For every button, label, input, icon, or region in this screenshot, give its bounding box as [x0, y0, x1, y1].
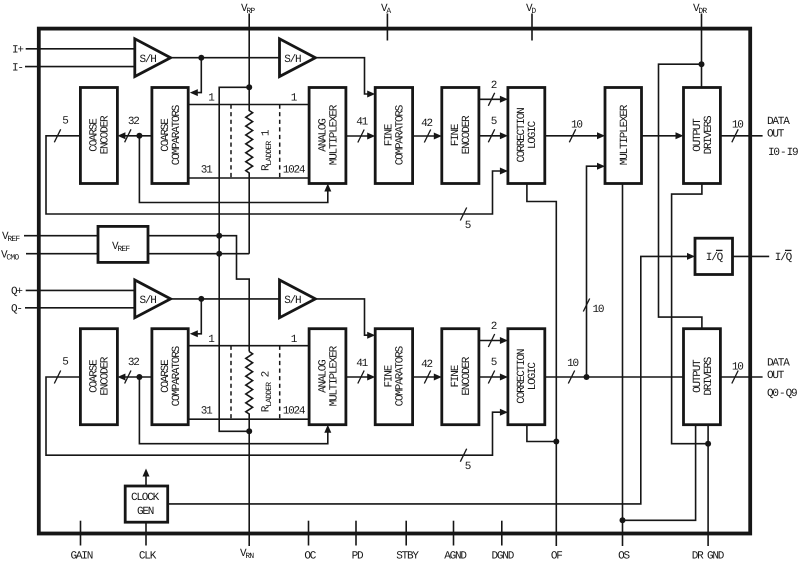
svg-text:5: 5 [62, 357, 68, 369]
svg-text:5: 5 [62, 115, 68, 127]
wire fine comparators I bus 42 to fine encoder I [413, 118, 442, 143]
svg-text:OUT: OUT [767, 129, 785, 141]
svg-text:I/Q: I/Q [706, 252, 724, 264]
output drivers I [684, 88, 721, 184]
wire clock gen distribution arrow [143, 469, 150, 487]
wire fine encoder I bus 2 to correction logic I [479, 80, 508, 106]
pin VD [526, 3, 536, 41]
svg-text:10: 10 [593, 304, 604, 316]
svg-text:1024: 1024 [283, 164, 306, 176]
svg-text:S/H: S/H [140, 54, 157, 66]
pin VRN [240, 548, 254, 561]
wire output drivers Q ground to DR GND pin [707, 425, 709, 546]
wire coarse comparators I to coarse encoder I bus 32 [117, 116, 151, 142]
svg-text:S/H: S/H [284, 295, 301, 307]
svg-text:GEN: GEN [137, 506, 154, 518]
s/h amplifier I-1 [135, 39, 171, 77]
wire s/h Q-1 branch to coarse comparators Q [190, 299, 202, 337]
resistor ladder 2 RLADDER2 [246, 352, 274, 432]
coarse encoder I [80, 88, 117, 184]
wire VRP reference rail [216, 87, 252, 434]
pin OC [304, 521, 316, 562]
wire s/h I-1 branch to coarse comparators I [190, 58, 202, 96]
label DATA OUT I0-I9 [767, 116, 798, 159]
resistor ladder 1 dashed box [231, 105, 280, 179]
wire output drivers I ground [672, 184, 712, 447]
pin VREF [2, 231, 98, 244]
svg-text:S/H: S/H [284, 54, 301, 66]
svg-text:41: 41 [356, 358, 368, 370]
svg-text:DGND: DGND [491, 551, 514, 562]
wire fine encoder Q bus 5 to correction logic Q [479, 357, 508, 383]
svg-text:I+: I+ [12, 45, 23, 57]
svg-text:ENCODER: ENCODER [100, 115, 112, 154]
wire output drivers Q data out bus 10 [720, 361, 762, 383]
correction logic I [508, 88, 545, 184]
wire s/h Q-1 output [171, 296, 280, 302]
analog multiplexer I [309, 88, 346, 184]
correction logic Q [508, 329, 545, 425]
svg-text:DRIVERS: DRIVERS [703, 115, 715, 154]
pin PD [352, 521, 364, 562]
svg-text:I-: I- [12, 62, 23, 74]
label DATA OUT Q0-Q9 [767, 358, 797, 401]
svg-text:COMPARATORS: COMPARATORS [395, 345, 407, 406]
svg-text:10: 10 [732, 361, 743, 373]
svg-text:S/H: S/H [140, 295, 157, 307]
svg-text:GND: GND [707, 551, 725, 562]
svg-text:42: 42 [421, 359, 432, 371]
multiplexer U1 [605, 88, 642, 184]
svg-text:10: 10 [732, 120, 743, 132]
svg-text:31: 31 [201, 406, 213, 418]
svg-text:5: 5 [491, 357, 497, 369]
wire iq output [733, 250, 793, 264]
pin VCMO [1, 249, 98, 262]
wire Q data bus 10 up to multiplexer [583, 163, 605, 380]
svg-text:DATA: DATA [767, 116, 790, 128]
svg-text:GAIN: GAIN [70, 551, 92, 562]
svg-text:COMPARATORS: COMPARATORS [171, 345, 183, 406]
svg-text:5: 5 [465, 220, 471, 232]
svg-text:LOGIC: LOGIC [527, 120, 539, 149]
wire coarse comparators I select to analog multiplexer I [139, 136, 331, 203]
svg-text:DATA: DATA [767, 358, 790, 370]
wire s/h Q-2 to fine comparators Q [315, 299, 375, 339]
svg-text:LOGIC: LOGIC [527, 362, 539, 391]
svg-text:OF: OF [551, 551, 562, 562]
pin CLK [139, 522, 157, 562]
pin DR GND [692, 551, 725, 562]
fine encoder I [442, 88, 479, 184]
voltage reference VREF [98, 226, 148, 262]
s/h amplifier I-2 [280, 39, 316, 77]
svg-text:PD: PD [352, 551, 364, 562]
wire correction logic Q overflow to OF pin [527, 425, 559, 445]
svg-text:COMPARATORS: COMPARATORS [395, 104, 407, 165]
svg-text:Q+: Q+ [11, 286, 22, 298]
svg-text:STBY: STBY [396, 551, 419, 562]
wire correction logic I bus 10 to multiplexer [545, 120, 605, 143]
fine encoder Q [442, 329, 479, 425]
wire ladder I bottom tap 31 1024 [188, 164, 309, 178]
pin I+ [12, 45, 135, 57]
svg-text:Q-: Q- [11, 304, 22, 316]
wire correction logic I overflow to OF pin [527, 184, 556, 547]
svg-text:DR: DR [692, 551, 704, 562]
svg-text:I/Q: I/Q [775, 252, 793, 264]
wire s/h I-2 to fine comparators I [315, 58, 375, 98]
svg-text:ENCODER: ENCODER [461, 115, 473, 154]
wire VDR branch to output drivers Q [659, 61, 705, 329]
pin Q+ [11, 286, 135, 298]
pin GAIN [70, 521, 92, 562]
svg-text:AGND: AGND [444, 551, 467, 562]
svg-text:32: 32 [128, 357, 139, 369]
pin I- [12, 62, 135, 74]
clock generator [125, 486, 168, 522]
pin Q- [11, 304, 135, 316]
wire correction logic Q data bus 10 to output drivers Q [545, 358, 684, 384]
chip border frame [39, 29, 750, 534]
svg-text:Q0-Q9: Q0-Q9 [767, 388, 797, 400]
svg-text:41: 41 [356, 117, 368, 129]
svg-text:31: 31 [201, 164, 213, 176]
svg-text:32: 32 [128, 116, 139, 128]
svg-text:10: 10 [571, 120, 582, 132]
svg-text:5: 5 [491, 116, 497, 128]
wire ladder Q top tap 1 [188, 334, 309, 346]
s/h amplifier Q-1 [135, 280, 171, 318]
wire analog multiplexer Q bus 41 to fine comparators Q [346, 358, 375, 384]
svg-text:10: 10 [567, 358, 578, 370]
pin OF [551, 551, 562, 562]
wire ladder I top tap 1 [188, 93, 309, 105]
wire output drivers Q enable to OS pin [623, 425, 696, 521]
coarse encoder Q [80, 329, 117, 425]
svg-text:OC: OC [304, 551, 316, 562]
wire coarse encoder I bus 5 to correction logic I [46, 115, 508, 232]
coarse comparators Q [152, 329, 188, 425]
wire VRN rail to pin [248, 431, 250, 546]
svg-text:OS: OS [618, 551, 630, 562]
s/h amplifier Q-2 [280, 280, 316, 318]
wire coarse comparators Q to coarse encoder Q bus 32 [117, 357, 151, 383]
resistor ladder 1 RLADDER1 [246, 14, 274, 254]
svg-text:CLOCK: CLOCK [131, 492, 160, 504]
svg-text:ENCODER: ENCODER [100, 356, 112, 395]
wire output drivers I data out bus 10 [720, 120, 762, 143]
svg-text:DRIVERS: DRIVERS [703, 356, 715, 395]
wire fine encoder I bus 5 to correction logic I [479, 116, 508, 142]
svg-text:2: 2 [491, 80, 497, 92]
svg-text:I0-I9: I0-I9 [768, 147, 798, 159]
svg-text:MULTIPLEXER: MULTIPLEXER [328, 104, 340, 165]
pin VA [381, 3, 391, 41]
coarse comparators I [152, 88, 188, 184]
pin VDR [693, 3, 707, 89]
svg-text:5: 5 [465, 461, 471, 473]
fine comparators Q [375, 329, 412, 425]
pin STBY [396, 521, 419, 562]
wire VREF output to ladder 2 top [148, 236, 249, 352]
wire analog multiplexer I bus 41 to fine comparators I [346, 117, 375, 143]
svg-text:2: 2 [491, 321, 497, 333]
svg-text:42: 42 [421, 118, 432, 130]
svg-text:MULTIPLEXER: MULTIPLEXER [328, 345, 340, 406]
resistor ladder 2 dashed box [231, 346, 280, 420]
analog multiplexer Q [309, 329, 346, 425]
pin OS [618, 551, 630, 562]
wire VCMO output to ladder 1 bottom [148, 253, 249, 255]
pin AGND [444, 521, 467, 562]
fine comparators I [375, 88, 412, 184]
wire multiplexer to output drivers I [642, 132, 684, 139]
wire coarse comparators Q select to analog multiplexer Q [139, 377, 331, 444]
svg-text:MULTIPLEXER: MULTIPLEXER [619, 104, 631, 165]
svg-text:OUT: OUT [767, 370, 785, 382]
svg-text:CLK: CLK [139, 551, 157, 562]
svg-text:COMPARATORS: COMPARATORS [171, 104, 183, 165]
wire multiplexer select to OS pin [620, 184, 626, 547]
svg-text:1024: 1024 [283, 406, 306, 418]
wire fine encoder Q bus 2 to correction logic Q [479, 321, 508, 347]
pin DGND [491, 521, 514, 562]
iq indicator box [695, 238, 733, 274]
pin VRP [241, 3, 255, 16]
wire ladder Q bottom tap 31 1024 [188, 406, 309, 420]
wire fine comparators Q bus 42 to fine encoder Q [413, 359, 442, 383]
output drivers Q [684, 329, 721, 425]
wire coarse encoder Q bus 5 to correction logic Q [46, 357, 508, 474]
wire s/h I-1 output [171, 55, 280, 61]
svg-text:ENCODER: ENCODER [461, 356, 473, 395]
wire clock to iq indicator [169, 253, 696, 504]
